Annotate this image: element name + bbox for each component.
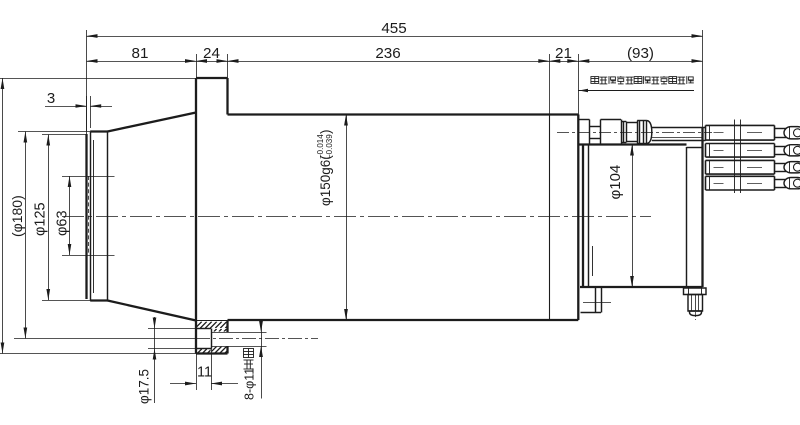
svg-text:81: 81 (132, 45, 149, 62)
svg-text:11: 11 (197, 365, 212, 381)
svg-text:8-φ11: 8-φ11 (243, 368, 257, 400)
svg-text:φ17.5: φ17.5 (137, 369, 152, 404)
svg-text:φ63: φ63 (55, 210, 71, 236)
svg-text:−0.039: −0.039 (325, 134, 334, 159)
svg-text:3: 3 (47, 90, 55, 107)
svg-text:φ104: φ104 (607, 165, 624, 200)
svg-text:−0.014: −0.014 (316, 134, 325, 159)
svg-text:(φ180): (φ180) (9, 195, 25, 237)
svg-text:φ125: φ125 (33, 202, 49, 236)
svg-text:21: 21 (555, 45, 572, 62)
svg-text:455: 455 (381, 20, 406, 37)
svg-text:236: 236 (375, 45, 400, 62)
svg-text:): ) (318, 130, 333, 135)
svg-text:(93): (93) (627, 45, 654, 62)
svg-text:24: 24 (203, 45, 220, 62)
svg-text:φ150g6(: φ150g6( (318, 155, 333, 206)
